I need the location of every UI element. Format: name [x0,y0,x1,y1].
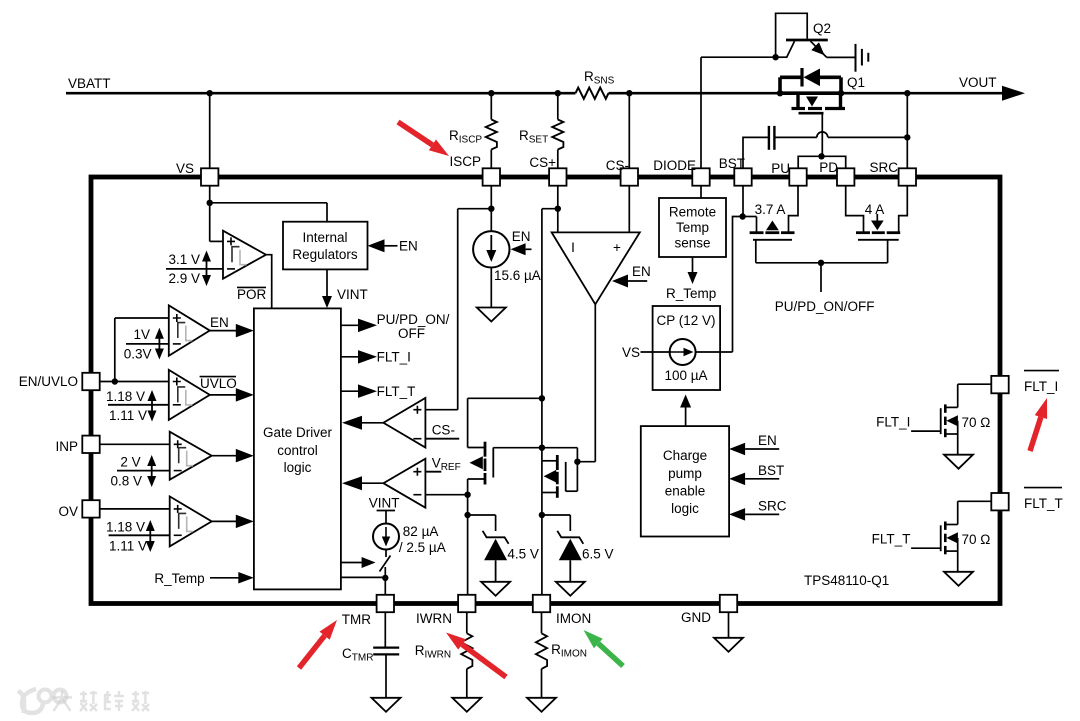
svg-text:Remote: Remote [669,205,716,220]
svg-text:BST: BST [719,156,745,171]
svg-text:CS-: CS- [432,423,455,438]
svg-text:EN: EN [512,229,531,244]
svg-text:Internal: Internal [302,230,347,245]
svg-text:VS: VS [176,161,194,176]
svg-text:FLT_I: FLT_I [876,415,910,430]
svg-text:FLT_I: FLT_I [1024,379,1058,394]
svg-text:Q2: Q2 [813,21,831,36]
svg-text:2.9 V: 2.9 V [168,271,200,286]
svg-text:1V: 1V [133,327,150,342]
svg-text:6.5 V: 6.5 V [582,546,614,561]
svg-text:1.18 V: 1.18 V [106,520,145,535]
svg-text:EN: EN [632,264,651,279]
svg-text:3.7 A: 3.7 A [755,202,786,217]
svg-text:R_Temp: R_Temp [666,286,716,301]
svg-text:UVLO: UVLO [200,376,237,391]
svg-text:logic: logic [284,460,312,475]
svg-text:FLT_T: FLT_T [1024,496,1063,511]
svg-text:CS-: CS- [606,158,629,173]
svg-text:EN: EN [210,315,229,330]
svg-text:+: + [613,240,621,255]
svg-text:TMR: TMR [342,612,371,627]
svg-text:1.18 V: 1.18 V [106,389,145,404]
svg-text:0.3V: 0.3V [124,347,152,362]
svg-text:CS+: CS+ [529,155,556,170]
svg-text:100 µA: 100 µA [664,368,707,383]
svg-text:Regulators: Regulators [292,247,358,262]
svg-text:PU: PU [771,161,790,176]
svg-text:TPS48110-Q1: TPS48110-Q1 [804,573,889,588]
svg-text:VOUT: VOUT [959,75,997,90]
svg-text:EN/UVLO: EN/UVLO [19,374,78,389]
svg-text:1.11 V: 1.11 V [109,539,147,554]
svg-text:FLT_I: FLT_I [377,350,411,365]
svg-text:15.6 µA: 15.6 µA [494,268,541,283]
svg-text:2 V: 2 V [120,455,140,470]
svg-text:VINT: VINT [369,496,400,511]
svg-text:70 Ω: 70 Ω [962,532,991,547]
svg-text:IMON: IMON [556,611,591,626]
svg-text:SRC: SRC [758,498,787,513]
svg-text:IWRN: IWRN [416,611,452,626]
svg-text:PU/PD_ON/: PU/PD_ON/ [377,312,450,327]
svg-text:PD: PD [819,160,838,175]
svg-text:VINT: VINT [337,287,368,302]
svg-text:POR: POR [237,287,267,302]
svg-text:EN: EN [399,239,418,254]
svg-text:ISCP: ISCP [449,154,481,169]
svg-text:Gate Driver: Gate Driver [263,425,333,440]
svg-text:CP (12 V): CP (12 V) [656,313,715,328]
svg-text:/ 2.5 µA: / 2.5 µA [399,540,446,555]
svg-text:3.1 V: 3.1 V [168,252,200,267]
svg-text:70 Ω: 70 Ω [962,415,991,430]
svg-text:0.8 V: 0.8 V [110,474,142,489]
svg-text:DIODE: DIODE [653,158,696,173]
svg-text:VS: VS [622,345,640,360]
svg-text:Charge: Charge [663,448,707,463]
svg-text:FLT_T: FLT_T [872,532,911,547]
svg-text:I: I [571,240,575,255]
svg-text:R_Temp: R_Temp [154,571,204,586]
svg-text:VBATT: VBATT [68,76,111,91]
svg-text:GND: GND [681,610,711,625]
svg-text:1.11 V: 1.11 V [109,408,147,423]
svg-text:4 A: 4 A [865,202,885,217]
svg-text:BST: BST [758,463,784,478]
svg-text:OFF: OFF [398,326,425,341]
svg-text:FLT_T: FLT_T [377,384,416,399]
svg-text:PU/PD_ON/OFF: PU/PD_ON/OFF [775,299,875,314]
svg-text:4.5 V: 4.5 V [507,546,539,561]
svg-text:pump: pump [668,466,702,481]
svg-text:sense: sense [674,236,710,251]
svg-text:enable: enable [665,484,706,499]
svg-text:EN: EN [758,433,777,448]
svg-text:SRC: SRC [869,160,898,175]
svg-text:82 µA: 82 µA [403,524,439,539]
svg-text:INP: INP [55,439,78,454]
svg-text:Temp: Temp [676,220,709,235]
svg-text:OV: OV [58,504,78,519]
svg-text:Q1: Q1 [847,75,865,90]
svg-text:logic: logic [671,501,699,516]
svg-text:control: control [277,443,318,458]
